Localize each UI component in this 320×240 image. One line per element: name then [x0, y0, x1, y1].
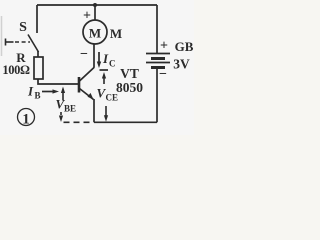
node junction dot — [93, 3, 97, 7]
svg-text:3V: 3V — [173, 57, 190, 72]
wire collector to motor — [93, 44, 95, 68]
label circled 1 — [18, 109, 35, 128]
svg-text:M: M — [89, 26, 101, 41]
svg-text:S: S — [19, 20, 27, 35]
svg-text:−: − — [159, 67, 167, 82]
wire switch to resistor — [37, 51, 39, 57]
wire motor stem — [94, 5, 96, 20]
voltage arrow VBE up — [61, 87, 65, 101]
transistor VT 8050 — [79, 68, 94, 100]
wire top rail — [37, 4, 157, 6]
svg-text:+: + — [83, 9, 91, 24]
svg-text:BE: BE — [64, 104, 76, 114]
wire switch upper vertical — [36, 5, 38, 33]
svg-text:1: 1 — [22, 112, 30, 128]
node reference bar — [100, 69, 109, 71]
svg-text:−: − — [80, 47, 88, 62]
wire battery bottom — [156, 69, 158, 122]
svg-text:M: M — [110, 26, 122, 41]
motor M — [83, 20, 107, 44]
svg-text:GB: GB — [175, 39, 194, 54]
svg-text:+: + — [160, 39, 168, 54]
svg-text:B: B — [35, 91, 41, 101]
svg-text:100Ω: 100Ω — [2, 63, 30, 77]
resistor R — [34, 57, 43, 79]
wire emitter down — [93, 99, 95, 122]
svg-text:8050: 8050 — [116, 80, 143, 95]
switch S — [6, 35, 39, 53]
voltage arrow VCE up — [102, 72, 106, 84]
voltage arrow VCE down — [104, 106, 108, 122]
svg-text:C: C — [109, 59, 116, 69]
current arrow IB — [42, 89, 59, 93]
svg-text:I: I — [27, 84, 34, 99]
svg-text:I: I — [102, 51, 109, 66]
voltage arrow VBE down — [59, 112, 63, 122]
svg-text:VT: VT — [120, 66, 139, 81]
wire resistor bottom to base — [38, 79, 78, 84]
wire battery top — [156, 5, 158, 53]
current arrow IC — [97, 52, 101, 68]
wire dashed bottom-left — [64, 121, 94, 123]
wire bottom rail — [94, 121, 157, 123]
battery GB — [146, 54, 170, 68]
